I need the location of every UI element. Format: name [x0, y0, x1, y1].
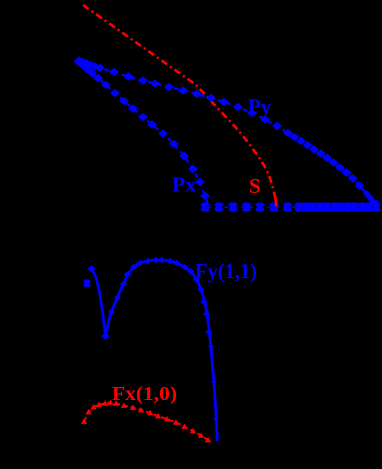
curve S end tick over zero line: [275, 197, 276, 207]
curve Fx(1,0) markers: [81, 400, 211, 443]
curve Py line (blue dashed): [79, 61, 375, 206]
curve S (red dash-dot): [83, 5, 276, 203]
curve Fx(1,0) line (red dashed): [84, 403, 208, 441]
curve Fy(1,1) line (blue solid): [92, 260, 218, 441]
svg-text:Py: Py: [248, 95, 271, 119]
zero line (blue thin dashed): [207, 206, 380, 208]
label Fx(1,0): [112, 383, 177, 405]
zero-line bottom marker row: [200, 207, 381, 212]
curve Py markers: [74, 56, 379, 205]
zero-line top marker row: [200, 203, 381, 208]
curve Fy(1,1) V-bottom marker: [101, 332, 109, 340]
curve Px markers: [74, 58, 210, 201]
label Fy(1,1): [195, 259, 257, 283]
label Py: [248, 95, 271, 119]
svg-text:Px: Px: [172, 173, 197, 197]
svg-text:Fy(1,1): Fy(1,1): [195, 259, 257, 283]
label S: [249, 174, 261, 198]
curve Px line (blue dashed): [79, 62, 208, 204]
curve Fy(1,1) markers: [83, 257, 219, 422]
svg-text:Fx(1,0): Fx(1,0): [112, 383, 177, 405]
svg-text:S: S: [249, 174, 261, 198]
curve Fy(1,1) first marker: [87, 265, 95, 273]
label Px: [172, 173, 197, 197]
